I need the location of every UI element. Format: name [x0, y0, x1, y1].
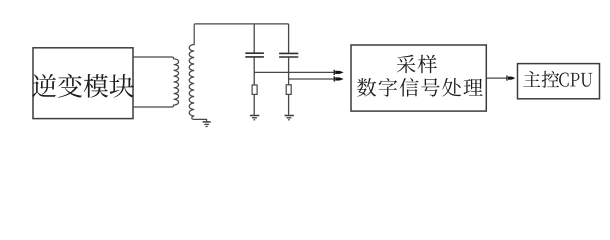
block U2: sampling / digital signal processing box — [351, 45, 486, 111]
label: 逆变模块 (inverter module) — [32, 74, 134, 98]
arrowhead: sense line 1 — [334, 70, 344, 75]
capacitor C2 leads (vertical wire) — [288, 24, 290, 115]
ground (R2) — [285, 116, 294, 120]
block U3: main control CPU box — [518, 64, 600, 99]
block U1: inverter module box (逆变模块) — [33, 48, 133, 119]
label: 主控CPU (main control CPU) — [523, 71, 592, 88]
capacitor C2 plates — [279, 53, 298, 57]
arrowhead: DSP to CPU — [506, 76, 515, 81]
capacitor C1 leads (vertical wire) — [253, 24, 255, 115]
wire: sense line 1 to sampling block — [254, 71, 334, 73]
ground (R1) — [250, 116, 259, 120]
capacitor C1 plates — [245, 53, 264, 57]
wire: sense line 2 to sampling block — [289, 78, 335, 80]
resistor R2 — [286, 85, 291, 95]
resistor R1 — [252, 85, 257, 94]
wire: DSP block to CPU block — [486, 77, 507, 79]
ground (secondary winding) — [203, 122, 211, 127]
label: 数字信号处理 (digital signal processing) — [357, 78, 483, 97]
transformer T1 secondary winding with top output wire — [189, 24, 288, 122]
arrowhead: sense line 2 — [334, 76, 344, 81]
label: 采样 (sampling) — [397, 55, 437, 74]
transformer T1 primary winding with wires from inverter box — [133, 57, 179, 107]
